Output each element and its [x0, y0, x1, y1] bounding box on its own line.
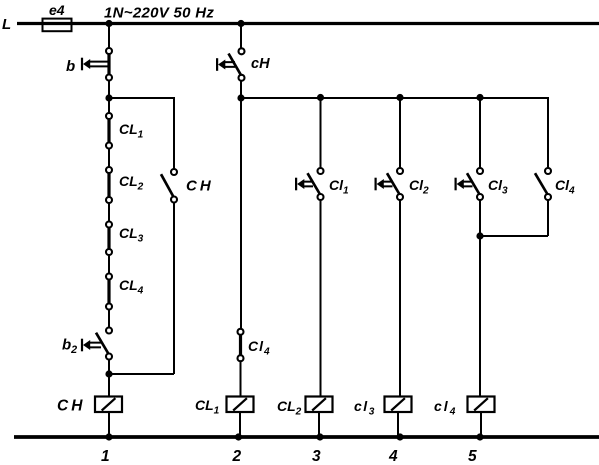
junction	[235, 433, 242, 440]
label 1N~220V 50Hz	[104, 5, 214, 22]
wire	[108, 310, 110, 328]
junction	[476, 433, 483, 440]
wire	[108, 412, 110, 437]
contact CL3 aux	[456, 168, 508, 200]
wire	[241, 97, 548, 99]
junction node C	[476, 232, 483, 239]
svg-text:L: L	[2, 16, 11, 33]
wire	[479, 200, 481, 397]
wire	[14, 435, 599, 439]
wire	[320, 98, 322, 168]
junction node A	[105, 94, 112, 101]
wire	[320, 200, 322, 397]
junction	[396, 433, 403, 440]
svg-text:2: 2	[232, 448, 242, 465]
wire	[397, 412, 399, 437]
svg-text:1N~220V 50 Hz: 1N~220V 50 Hz	[104, 5, 214, 22]
node 3	[312, 448, 321, 465]
wire	[108, 81, 110, 114]
svg-text:4: 4	[388, 448, 398, 465]
wire	[108, 360, 110, 397]
wire	[318, 412, 320, 437]
coil CH	[57, 397, 122, 415]
coil CL3	[354, 397, 412, 418]
wire	[239, 412, 241, 437]
junction node B	[105, 370, 112, 377]
svg-text:C H: C H	[57, 398, 83, 415]
contact CH	[161, 169, 212, 203]
contact CL2 aux	[376, 168, 429, 200]
contact CL4 aux	[238, 329, 271, 361]
coil CL4	[434, 397, 495, 418]
pushbutton b	[66, 48, 112, 81]
contact CL4 par	[535, 168, 575, 200]
wire	[399, 200, 401, 397]
wire	[109, 203, 174, 375]
contact CL4	[106, 274, 144, 310]
wire	[240, 81, 242, 329]
junction	[316, 433, 323, 440]
junction	[237, 94, 244, 101]
wire	[17, 22, 599, 25]
svg-text:5: 5	[468, 448, 477, 465]
node 4	[388, 448, 398, 465]
pushbutton b2	[62, 328, 112, 360]
contact CL2	[106, 167, 144, 203]
node L	[2, 16, 11, 33]
svg-text:e4: e4	[49, 2, 65, 18]
wire	[480, 412, 482, 437]
junction	[105, 433, 112, 440]
node 5	[468, 448, 477, 465]
wire	[108, 255, 110, 274]
wire	[108, 24, 110, 49]
node 1	[101, 448, 110, 465]
wire	[240, 361, 242, 396]
svg-text:1: 1	[101, 448, 110, 465]
junction	[317, 94, 324, 101]
junction	[476, 94, 483, 101]
wire	[547, 97, 549, 168]
contact CL1 aux	[296, 168, 349, 200]
wire	[108, 203, 110, 222]
wire	[109, 97, 174, 169]
wire	[479, 98, 481, 168]
node 2	[232, 448, 242, 465]
svg-text:cH: cH	[251, 56, 270, 72]
wire	[399, 98, 401, 168]
svg-text:C H: C H	[186, 178, 212, 195]
wire	[480, 200, 548, 236]
svg-text:3: 3	[312, 448, 321, 465]
junction	[105, 20, 112, 27]
junction	[396, 94, 403, 101]
wire	[108, 149, 110, 168]
pushbutton cH	[217, 48, 270, 81]
coil CL1	[195, 397, 254, 417]
contact CL3	[106, 222, 144, 256]
svg-text:b: b	[66, 58, 75, 75]
fuse e4	[43, 2, 72, 31]
wire	[240, 24, 242, 49]
contact CL1	[106, 113, 144, 149]
junction	[237, 20, 244, 27]
coil CL2	[277, 397, 333, 418]
